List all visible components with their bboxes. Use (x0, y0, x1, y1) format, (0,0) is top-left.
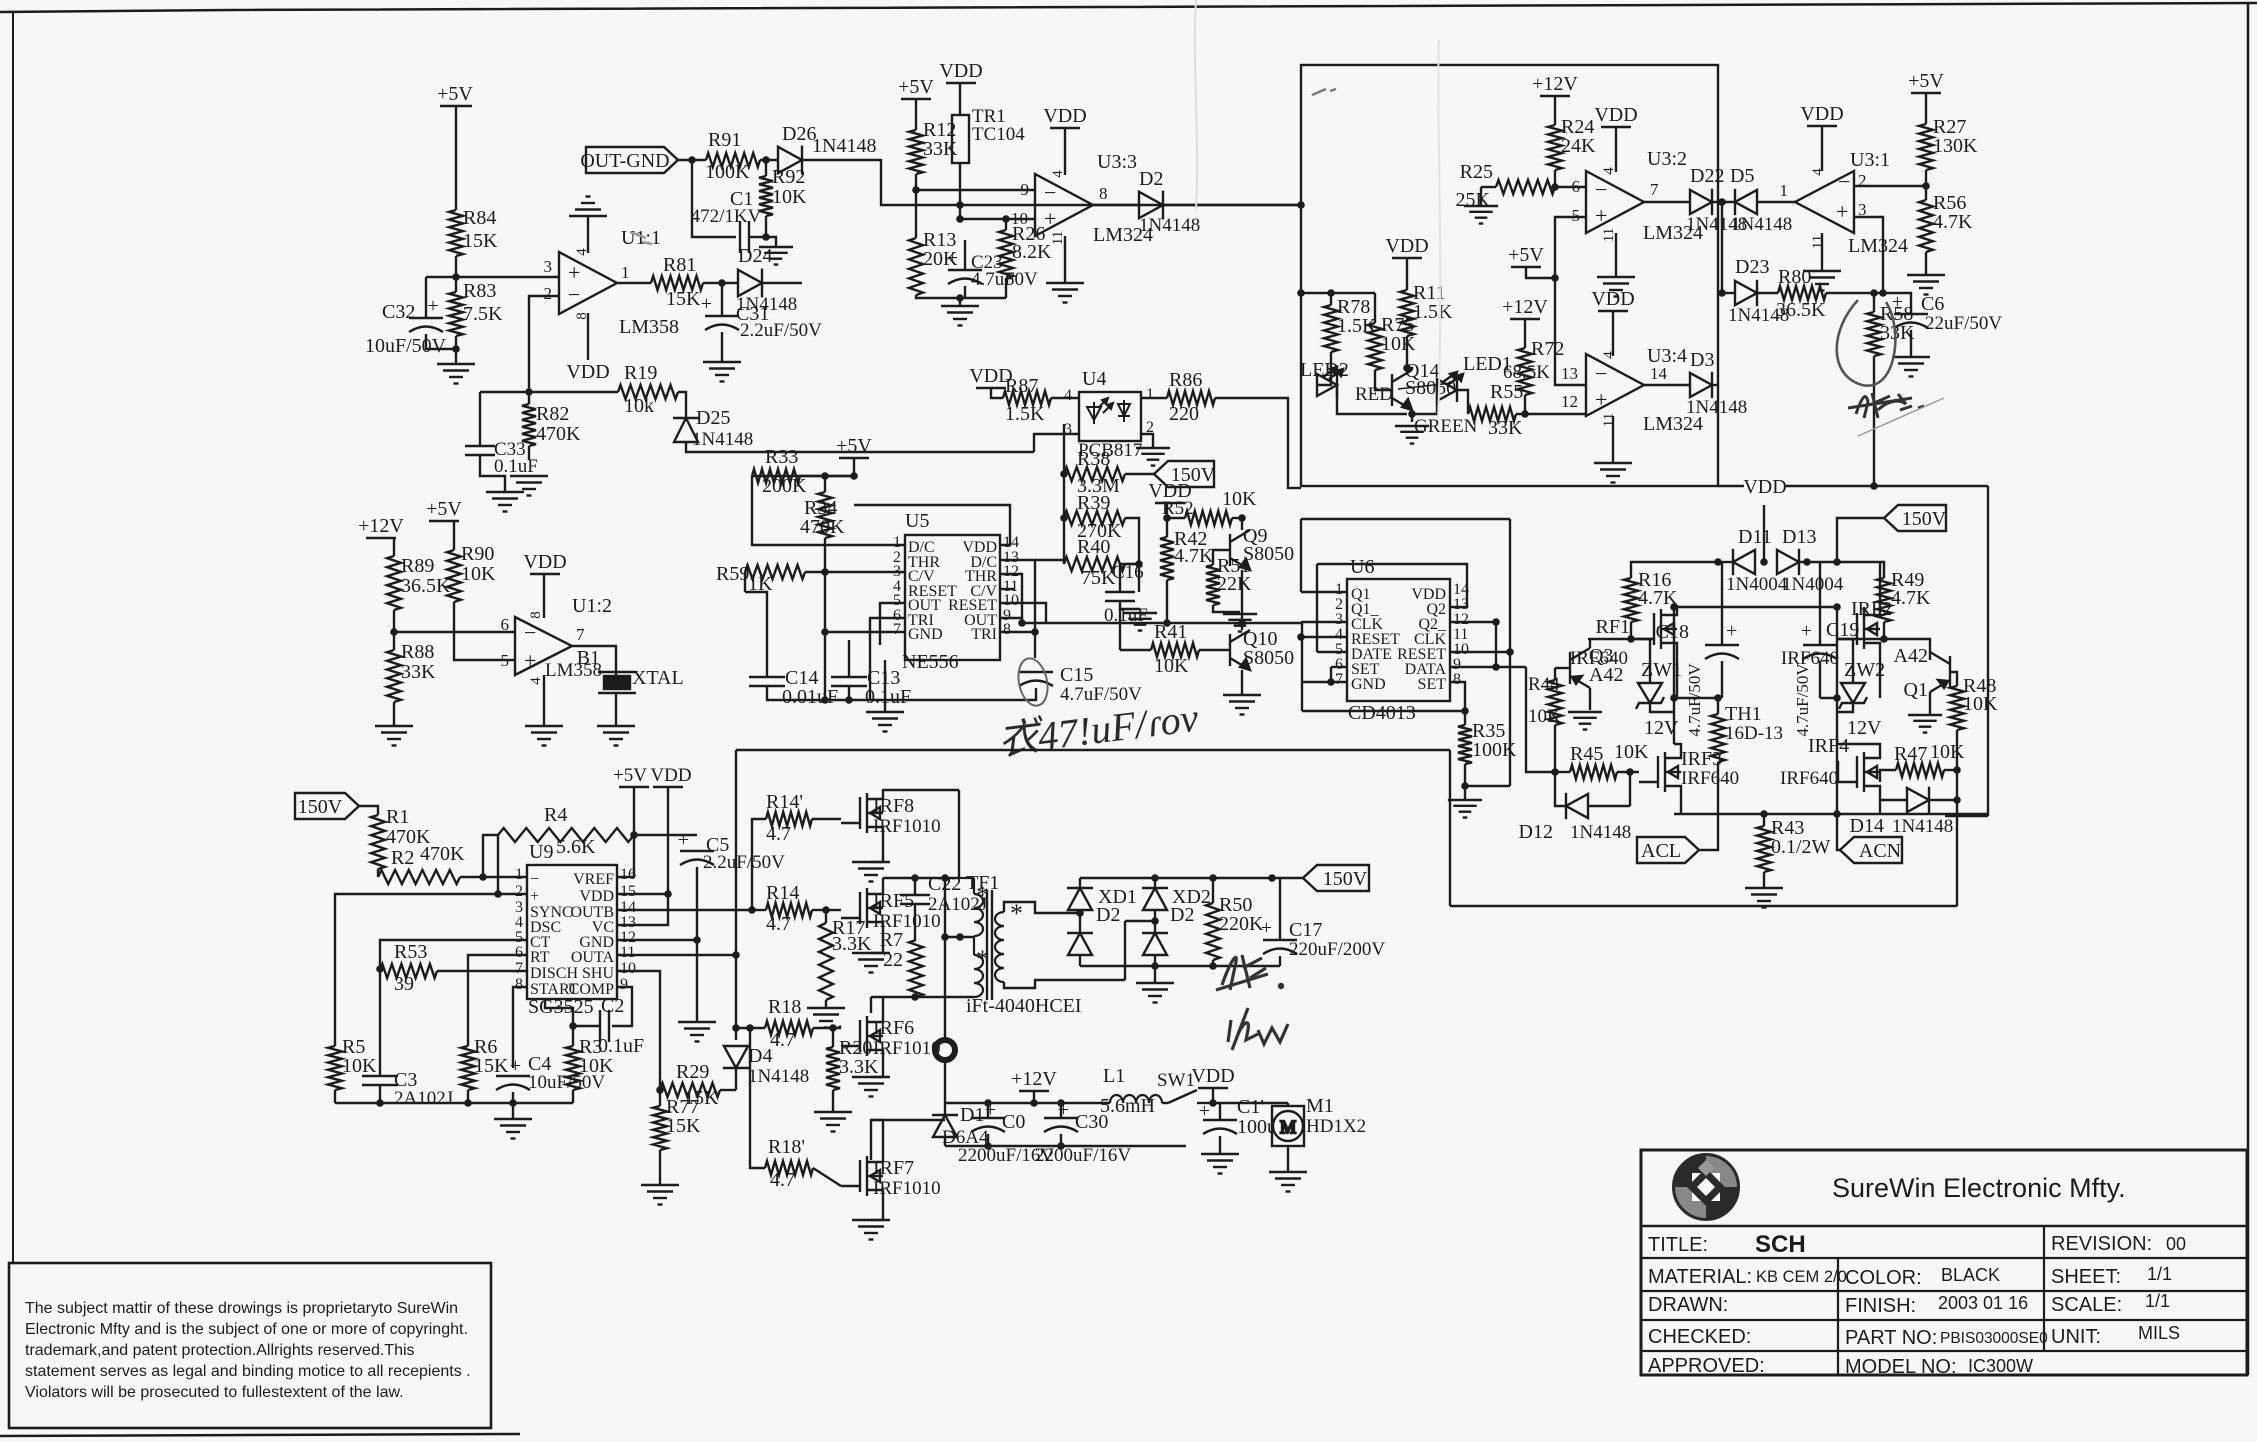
ground (IRF8) (852, 862, 890, 882)
svg-text:iFt-4040HCEI: iFt-4040HCEI (966, 995, 1082, 1017)
svg-text:11: 11 (620, 944, 635, 961)
wire down to R18' (750, 1028, 765, 1168)
svg-text:200K: 200K (762, 475, 807, 497)
wire R16 bottom (1630, 622, 1632, 639)
thermistor TR1 (952, 115, 969, 163)
flag ACN (1840, 837, 1902, 863)
junction (718, 279, 726, 287)
svg-text:00: 00 (2166, 1234, 2186, 1254)
wire (1219, 1103, 1221, 1120)
wire (479, 455, 481, 462)
capacitor C23 (948, 270, 982, 284)
svg-text:10: 10 (620, 960, 636, 977)
junction (1551, 183, 1559, 191)
junction (569, 1022, 577, 1030)
svg-text:4: 4 (1601, 351, 1617, 359)
svg-text:11: 11 (1601, 413, 1617, 427)
wire VDD (587, 313, 589, 360)
resistor R4 (498, 828, 634, 842)
wire R41 to Q10 base (1199, 649, 1230, 651)
svg-text:33K: 33K (1488, 417, 1523, 439)
svg-text:10K: 10K (1381, 333, 1416, 355)
wire bottom bus (1080, 965, 1280, 967)
wire R86 net jog (1288, 487, 1301, 489)
transistor Q9 (1230, 530, 1250, 570)
resistor R13 (909, 238, 923, 295)
page bottom border (0, 1434, 520, 1436)
resistor R2 (378, 870, 460, 884)
junction (1408, 410, 1416, 418)
junction (1492, 663, 1500, 671)
svg-text:U1:2: U1:2 (572, 595, 612, 617)
wire (1064, 128, 1066, 175)
wire pin13 VC (617, 894, 668, 925)
junction (1922, 182, 1930, 190)
resistor R14' (766, 812, 812, 826)
wire pin9 OUT (1000, 618, 1022, 623)
wire? gate (1863, 607, 1865, 619)
wire (1034, 592, 1036, 632)
handwritten 1/4W (1228, 1008, 1288, 1050)
wire (379, 1085, 381, 1103)
svg-text:1/1: 1/1 (2147, 1264, 2172, 1284)
svg-text:−: − (1838, 169, 1850, 194)
wire R35 bottom to loop (1465, 785, 1510, 787)
svg-text:7: 7 (1335, 671, 1343, 688)
ground (R25) (1464, 206, 1498, 224)
wire C31 bottom (721, 332, 723, 362)
svg-text:R25: R25 (1460, 161, 1493, 183)
junction (1327, 678, 1335, 686)
wire TR1 bottom (959, 163, 961, 219)
svg-text:D2: D2 (1139, 168, 1163, 190)
diode XD2 lower (1142, 933, 1168, 955)
junction (688, 156, 696, 164)
wire (1272, 877, 1303, 879)
junction (1060, 514, 1068, 522)
wire pin3 down (1854, 217, 1883, 293)
transformer TF1 secondary winding (995, 912, 1004, 982)
capacitor C18 (1705, 645, 1739, 659)
wire R77 top (659, 1090, 661, 1106)
svg-text:SCH: SCH (1755, 1231, 1806, 1258)
wire pin11 (1000, 588, 1015, 590)
resistor R59 (745, 565, 805, 579)
resistor R80 (1778, 286, 1826, 300)
wire C2 to R3 (573, 1026, 600, 1046)
svg-text:CHECKED:: CHECKED: (1648, 1326, 1751, 1348)
wire IRF2 drain up (1879, 562, 1881, 605)
svg-text:IC300W: IC300W (1968, 1356, 2033, 1376)
svg-text:4: 4 (1050, 170, 1066, 178)
svg-text:U6: U6 (1350, 556, 1374, 578)
wire R33-left to pin1 (752, 476, 905, 545)
wire (1554, 96, 1556, 125)
svg-text:1: 1 (1780, 181, 1789, 200)
wire IRF7 drain riser (871, 1120, 945, 1160)
wire (871, 1076, 883, 1078)
wire to C5 (634, 834, 697, 836)
wire (871, 1119, 883, 1121)
diode XD1 upper (1067, 888, 1093, 910)
resistor R43 (1757, 826, 1771, 872)
svg-text:C6: C6 (1921, 293, 1944, 315)
diode D5 (1735, 189, 1757, 215)
svg-text:5.6mH: 5.6mH (1100, 1095, 1155, 1117)
wire (1555, 771, 1570, 773)
svg-text:470K: 470K (536, 423, 581, 445)
resistor R58 (1867, 312, 1881, 356)
resistor R83 (449, 292, 463, 336)
ground (U3:1) (1803, 271, 1841, 291)
junction (452, 345, 460, 353)
svg-text:1N4004: 1N4004 (1726, 574, 1788, 595)
wire C31 top (721, 283, 723, 316)
wire (824, 476, 826, 492)
junction (390, 628, 398, 636)
svg-text:4: 4 (1064, 387, 1072, 404)
junction (1718, 289, 1726, 297)
wire center tap (945, 936, 974, 938)
junction (1209, 874, 1217, 882)
junction (1031, 628, 1039, 636)
svg-text:R44: R44 (1528, 674, 1560, 695)
node block outline (top right) (1301, 65, 1718, 486)
wire to U1:1 + (426, 276, 558, 278)
wire U6 pin7 GND loop (1331, 667, 1347, 682)
wire (1464, 764, 1466, 786)
svg-text:IRF640: IRF640 (1781, 648, 1839, 669)
wire Q9 base to R51 (1213, 550, 1230, 565)
junction (1833, 603, 1841, 611)
wire (1673, 698, 1675, 744)
svg-text:ACL: ACL (1641, 840, 1681, 862)
svg-text:+5V: +5V (1508, 244, 1544, 266)
mosfet IRF5 IRF1010 (841, 884, 883, 932)
junction (1714, 694, 1722, 702)
resistor R45 (1570, 765, 1617, 779)
capacitor C13 (831, 677, 867, 686)
svg-text:RF1: RF1 (1596, 616, 1630, 638)
wire R2 to pin1 (460, 876, 527, 878)
svg-text:Electronic Mfty and is the sub: Electronic Mfty and is the subject of on… (25, 1321, 468, 1338)
svg-text:SW1: SW1 (1157, 1070, 1195, 1091)
wire (455, 106, 457, 210)
wire (1717, 698, 1719, 714)
wire (1167, 503, 1185, 518)
wire pin2 left down (335, 894, 498, 1046)
svg-text:C2: C2 (601, 995, 624, 1017)
svg-text:4.7uF/50V: 4.7uF/50V (1685, 663, 1704, 737)
wire (1166, 518, 1168, 537)
junction (494, 890, 502, 898)
wire (1524, 395, 1526, 414)
wire pin11 OUTA right dn (617, 955, 736, 1040)
op-amp U3:1 (1795, 171, 1854, 233)
wire (839, 457, 869, 459)
wire (1064, 236, 1066, 283)
svg-text:VDD: VDD (1800, 103, 1843, 125)
resistor R42 (1160, 537, 1174, 580)
wire R17 top (825, 910, 827, 923)
wire OUTA to R18 (736, 1027, 765, 1029)
svg-text:D11: D11 (1738, 526, 1772, 548)
wire (1120, 564, 1139, 592)
resistor R52 (1185, 511, 1232, 525)
motor M1 (1272, 1106, 1304, 1146)
svg-text:R40: R40 (1077, 536, 1110, 558)
wire C15 bottom (885, 688, 1036, 700)
ground (R17) (807, 1008, 845, 1028)
wire power section top edge (1718, 485, 1988, 487)
svg-text:RED: RED (1355, 384, 1393, 405)
ground (Q1) (1908, 715, 1942, 733)
ground (R51) (1223, 614, 1257, 632)
junction (1870, 289, 1878, 297)
svg-text:150V: 150V (1902, 508, 1947, 530)
svg-text:R41: R41 (1154, 621, 1187, 643)
wire R25 left (1481, 186, 1496, 188)
svg-text:R92: R92 (772, 166, 805, 188)
svg-text:IRF2: IRF2 (1851, 598, 1892, 620)
wire secondary top (1004, 902, 1080, 913)
diode D1 (932, 1115, 958, 1137)
svg-text:10K: 10K (772, 186, 807, 208)
resistor R18 (765, 1021, 813, 1035)
wire secondary bottom (1004, 980, 1125, 988)
junction (1521, 410, 1529, 418)
svg-text:11: 11 (1601, 228, 1617, 242)
svg-text:+: + (701, 293, 712, 315)
capacitor C32 (409, 318, 443, 332)
wire R58 top (1873, 293, 1875, 312)
wire (882, 789, 884, 790)
svg-text:C19: C19 (1826, 619, 1859, 641)
wire (760, 159, 778, 161)
svg-text:10K: 10K (1614, 741, 1649, 763)
svg-text:VDD: VDD (1043, 105, 1086, 127)
junction (1018, 619, 1026, 627)
flag 150V (C17) (1303, 865, 1369, 891)
svg-text:D23: D23 (1735, 256, 1769, 278)
wire R11 bottom (1406, 336, 1408, 368)
wire (667, 787, 669, 894)
ground (Q14) (1395, 426, 1429, 444)
svg-text:5: 5 (1572, 206, 1581, 225)
wire (1155, 502, 1185, 504)
junction (762, 233, 770, 241)
wire (1615, 233, 1617, 277)
thermistor TH1 (1711, 714, 1725, 762)
svg-text:75K: 75K (1081, 567, 1116, 589)
U4 internal LED (1087, 398, 1113, 424)
mosfet IRF8 IRF1010 (841, 789, 883, 837)
svg-text:3.3K: 3.3K (839, 1056, 879, 1078)
junction (1461, 707, 1469, 715)
wire (944, 1137, 946, 1146)
svg-text:10: 10 (1011, 209, 1028, 228)
wire R49 to gate node (1880, 622, 1884, 639)
IC U6 CD4013 (1347, 579, 1450, 701)
wire to gnd (766, 237, 776, 247)
wire (633, 787, 635, 877)
svg-text:+: + (1044, 206, 1056, 231)
resistor R12 (909, 130, 923, 174)
wire (1480, 187, 1482, 206)
wire (455, 336, 457, 349)
svg-text:R14: R14 (766, 882, 799, 904)
wire (871, 1219, 883, 1221)
svg-text:472/1KV: 472/1KV (691, 206, 762, 227)
wire R55 to pin12 (1516, 413, 1586, 415)
svg-text:13: 13 (1561, 364, 1578, 383)
diode D11 (1733, 549, 1755, 575)
wire down to ferrite (944, 937, 946, 1040)
wire (1464, 786, 1466, 800)
wire (1911, 92, 1941, 94)
legal text box (9, 1263, 491, 1428)
svg-text:IRF640: IRF640 (1780, 768, 1838, 789)
wire R43 top (1763, 814, 1765, 826)
svg-text:DISCH: DISCH (530, 965, 578, 982)
resistor R55 (1468, 407, 1516, 421)
U4 internal phototransistor (1118, 400, 1130, 422)
resistor R40 (1064, 557, 1125, 571)
svg-text:GND: GND (908, 626, 943, 643)
svg-text:150V: 150V (298, 796, 343, 818)
wire R41 left (1120, 649, 1151, 651)
scan smudge (1312, 89, 1336, 95)
wire (765, 160, 767, 176)
wire D24 to net (762, 282, 802, 284)
capacitor C33 (465, 446, 495, 455)
wire C1 left (692, 160, 736, 237)
ground (U3:3) (1046, 283, 1084, 303)
svg-text:4.7: 4.7 (766, 913, 791, 935)
ground (Q3) (1568, 712, 1602, 730)
wire (1232, 517, 1242, 519)
wire (1279, 956, 1281, 966)
wire (749, 236, 766, 238)
svg-text:VDD: VDD (1591, 288, 1634, 310)
wire pin10 RESET (1000, 603, 1046, 623)
svg-text:R83: R83 (463, 280, 496, 302)
ferrite ring (935, 1040, 955, 1060)
wire to U3:2 pin6 (1555, 186, 1586, 188)
wire (528, 392, 530, 404)
resistor R47 (1896, 763, 1944, 777)
wire IRF6 drain riser (870, 997, 872, 1013)
wire to D1 (944, 1060, 946, 1103)
wire bus to D14 right (1945, 815, 1988, 817)
wire R13 bottom row (916, 295, 1006, 298)
wire gate row (1838, 638, 1884, 640)
wire (1411, 414, 1413, 422)
svg-text:IRF640: IRF640 (1570, 648, 1628, 669)
ground (U1:2) (525, 726, 563, 746)
wire (765, 216, 767, 237)
svg-text:IRF6: IRF6 (873, 1017, 914, 1039)
wire out U1:1 (617, 282, 651, 284)
wire OUTA long run (736, 749, 1450, 751)
diode D23 (1735, 280, 1757, 306)
page left border (12, 13, 14, 1263)
wire (1005, 219, 1007, 230)
svg-text:R89: R89 (401, 555, 434, 577)
svg-text:U9: U9 (529, 841, 553, 863)
svg-text:BLACK: BLACK (1941, 1265, 2000, 1285)
resistor R6 (461, 1046, 475, 1090)
svg-text:68.5K: 68.5K (1503, 362, 1550, 383)
junction (464, 1099, 472, 1107)
diode D4 (723, 1046, 749, 1068)
wire Q10 collector (1241, 623, 1243, 630)
wire C19 top (1819, 562, 1821, 645)
wire (1154, 910, 1156, 933)
wire R39 right down (1125, 518, 1139, 564)
wire D25 net to U4 pin3 (1034, 434, 1079, 452)
svg-text:FINISH:: FINISH: (1845, 1295, 1916, 1317)
svg-text:−: − (1044, 180, 1056, 205)
svg-text:11: 11 (1810, 235, 1826, 249)
wire U4 pin2 dn (1141, 434, 1153, 448)
wire R47 to gate (1880, 770, 1896, 782)
svg-text:1N4148: 1N4148 (1731, 214, 1792, 235)
ground (C1') (1201, 1154, 1239, 1174)
svg-text:+: + (678, 829, 689, 851)
wire (853, 458, 855, 476)
wire R58 down to row (1873, 356, 1875, 486)
svg-text:IRF8: IRF8 (873, 795, 914, 817)
svg-text:S8050: S8050 (1243, 543, 1294, 565)
inductor L1 (1110, 1095, 1162, 1103)
wire (512, 1092, 514, 1103)
wire D3 to edge (1712, 384, 1718, 386)
wire (659, 1150, 661, 1185)
wire (1212, 1088, 1214, 1103)
svg-text:DRAWN:: DRAWN: (1648, 1294, 1728, 1316)
wire pin2 to R27/R56 (1854, 185, 1926, 187)
resistor R51 (1206, 565, 1220, 605)
svg-text:25K: 25K (1456, 189, 1491, 211)
wire 150V bus (1080, 877, 1272, 879)
svg-text:1.5K: 1.5K (1413, 301, 1453, 323)
wire C18 bottom (1721, 661, 1723, 698)
resistor R29 (660, 1083, 720, 1097)
svg-text:D24: D24 (738, 245, 772, 267)
svg-text:C15: C15 (1060, 664, 1093, 686)
wire C33 to gnd (480, 462, 505, 492)
wire D22/D5 down to D23 (1721, 202, 1723, 293)
handwritten ellipse (C15) (1014, 656, 1051, 709)
svg-text:1N4148: 1N4148 (748, 1066, 809, 1087)
svg-text:IRF640: IRF640 (1681, 768, 1739, 789)
svg-text:SHU: SHU (582, 965, 614, 982)
wire (1673, 607, 1675, 698)
logo SureWin (1675, 1156, 1737, 1218)
junction (1953, 796, 1961, 804)
wire (1287, 1146, 1289, 1172)
wire Q3 collector up (1589, 639, 1591, 648)
svg-text:R19: R19 (624, 362, 657, 384)
svg-text:+5V: +5V (437, 83, 473, 105)
scan crease (1195, 0, 1197, 210)
wire R34 to pin6 (825, 538, 905, 632)
junction (1209, 1099, 1217, 1107)
svg-text:0.1uF: 0.1uF (494, 456, 538, 477)
op-amp U3:2 (1586, 171, 1644, 233)
wire (429, 520, 459, 522)
